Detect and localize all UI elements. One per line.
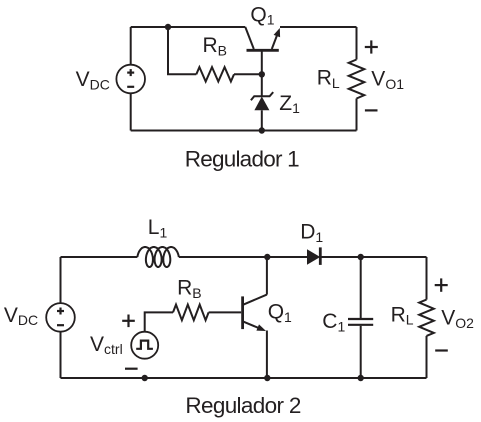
svg-text:VO1: VO1 [371,68,404,92]
resistor RB (Regulador 2) [173,305,209,321]
voltage source VDC (Regulador 1) [116,65,145,94]
node base of Q1 (Regulador 1) [259,71,265,77]
svg-text:C1: C1 [322,310,345,334]
svg-text:Regulador 1: Regulador 1 [185,146,300,171]
wire Q1 collector to top rail (Regulador 2) [266,257,268,295]
wire C1 bottom (Regulador 2) [360,326,362,378]
wire RB branch (Regulador 1) [168,27,196,74]
node Vctrl bottom junction [142,375,148,381]
wire right rail bottom (Regulador 1) [356,99,358,131]
label minus VO2 [435,349,448,351]
resistor RB (Regulador 1) [196,67,234,81]
wire RB to Q1 base (Regulador 2) [209,311,242,313]
label plus Vctrl [122,315,135,328]
wire top rail middle (Regulador 2) [179,256,307,258]
wire C1 top (Regulador 2) [360,257,362,318]
svg-text:RL: RL [391,303,414,327]
svg-text:Regulador 2: Regulador 2 [185,393,301,418]
svg-text:VO2: VO2 [441,307,474,331]
svg-text:Q1: Q1 [268,301,292,325]
wire top rail right (Regulador 2) [320,256,426,258]
label minus Vctrl [125,368,138,370]
wire bottom rail (Regulador 1) [131,130,357,132]
node Q1 emitter junction [264,375,270,381]
voltage source VDC (Regulador 2) [46,303,75,332]
wire Z1 to bottom rail [261,110,263,130]
transistor Q1 (Regulador 2) [243,295,267,331]
svg-text:L1: L1 [148,216,168,240]
transistor Q1 (Regulador 1) [245,27,280,74]
wire RB to base node (Regulador 1) [234,73,262,75]
source Vctrl pulse generator [131,332,158,359]
wire right rail top (Regulador 2) [426,257,428,300]
diode D1 [307,247,320,265]
wire top rail right (Regulador 1) [280,26,357,28]
node Q1 collector junction (Regulador 2) [264,254,270,260]
node C1 top junction [358,254,364,260]
svg-text:D1: D1 [300,221,323,245]
svg-text:VDC: VDC [4,304,38,328]
svg-text:RB: RB [203,34,228,58]
wire top rail left (Regulador 2) [61,256,138,258]
svg-text:Vctrl: Vctrl [90,333,123,357]
resistor RL (Regulador 2) [419,300,434,336]
svg-text:RB: RB [177,276,202,300]
node junction RB tap (Regulador 1) [165,24,171,30]
wire Vctrl to RB (Regulador 2) [145,312,173,331]
wire bottom rail (Regulador 2) [61,377,427,379]
svg-text:RL: RL [317,67,340,91]
wire Q1 emitter to bottom rail (Regulador 2) [266,331,268,379]
wire left rail (Regulador 1) [130,27,132,131]
wire left rail (Regulador 2) [60,257,62,378]
zener diode Z1 [251,92,273,110]
wire right rail bottom (Regulador 2) [426,336,428,378]
inductor L1 [137,247,178,267]
wire top rail left (Regulador 1) [131,26,246,28]
resistor RL (Regulador 1) [349,60,365,99]
svg-text:Q1: Q1 [250,3,274,27]
svg-text:VDC: VDC [76,68,110,92]
label plus VO1 [365,40,378,53]
node Z1 anode at bottom rail [259,127,265,133]
wire base node to Z1 [261,74,263,96]
label plus VO2 [435,278,448,291]
label minus VO1 [365,109,378,111]
wire right rail top (Regulador 1) [356,27,358,60]
capacitor C1 [348,319,373,325]
node C1 bottom junction [358,375,364,381]
svg-text:Z1: Z1 [279,92,300,116]
